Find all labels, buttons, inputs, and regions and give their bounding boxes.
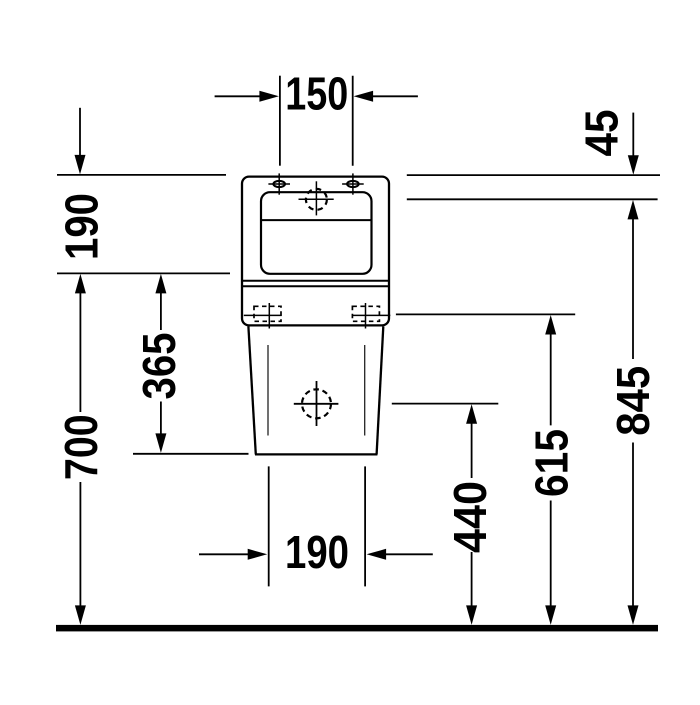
urinal outer box [242, 177, 389, 326]
700 down head [75, 605, 86, 625]
drain dashed circle [294, 381, 339, 426]
dim 190 bottom arrow right [385, 553, 433, 555]
svg-text:150: 150 [285, 68, 348, 120]
svg-text:190: 190 [56, 193, 108, 260]
body right edge [377, 326, 384, 454]
150 right head [354, 91, 374, 102]
basin rim inner rect [261, 192, 372, 274]
dim 365 line [160, 292, 162, 330]
ext line rim level right [407, 198, 658, 200]
svg-text:615: 615 [525, 429, 577, 497]
ext line top of box right [407, 174, 660, 176]
190 top down head [75, 155, 86, 175]
body left edge [248, 326, 255, 454]
700 up head [75, 274, 86, 294]
ext line fixing level right [396, 313, 575, 315]
ext line 190 bottom right [364, 466, 366, 586]
dim 615 line [550, 333, 552, 425]
box horizontal line B [243, 285, 389, 287]
arrowheads [75, 91, 639, 625]
ext line 150 right [352, 76, 354, 166]
dim 700 line [79, 292, 81, 412]
box horizontal line A [243, 280, 389, 282]
440 down head [466, 605, 477, 625]
fixing hole right [342, 173, 364, 194]
svg-text:845: 845 [607, 366, 659, 436]
365 up head [155, 274, 166, 294]
fixing square left [244, 303, 282, 329]
845 down head [628, 605, 639, 625]
svg-text:440: 440 [444, 481, 496, 553]
svg-text:45: 45 [576, 110, 628, 157]
190 bottom left head [248, 549, 268, 560]
dim 150 arrow right [372, 95, 418, 97]
dim 190 bottom arrow left [199, 553, 249, 555]
rim inner line [261, 219, 372, 221]
svg-text:190: 190 [285, 526, 349, 578]
body shade line left [267, 345, 269, 436]
365 down head [155, 433, 166, 453]
dim 45 line top [632, 113, 634, 157]
ext line 150 left [279, 76, 281, 166]
45 down head [628, 155, 639, 175]
svg-text:700: 700 [55, 414, 107, 480]
svg-text:365: 365 [133, 333, 185, 400]
845 up head [628, 200, 639, 220]
dim 845 line [632, 218, 634, 359]
fixing square right [352, 303, 390, 329]
fixing hole left [268, 173, 290, 194]
dim 440 line [471, 423, 473, 479]
body bottom edge [255, 453, 377, 455]
440 up head [466, 404, 477, 424]
body shade line right [364, 345, 366, 436]
ext line 190 bottom left [268, 466, 270, 586]
615 down head [545, 605, 556, 625]
190 bottom right head [367, 549, 387, 560]
ext line body bottom left [133, 453, 249, 455]
dim 190 top arrow line [79, 108, 81, 158]
ext line top of box left [57, 174, 226, 176]
water inlet dashed circle [299, 181, 334, 215]
ext line rim bottom left [57, 272, 230, 274]
150 left head [259, 91, 279, 102]
615 up head [545, 315, 556, 335]
floor line [56, 625, 658, 632]
dim 150 arrow left [215, 95, 261, 97]
ext line drain level right [392, 403, 499, 405]
